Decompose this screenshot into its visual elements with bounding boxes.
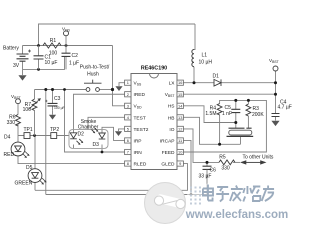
wire D3 cathode to IRN: [101, 145, 103, 153]
ground (C3): [49, 111, 56, 120]
pin 12: [177, 126, 183, 131]
svg-text:IO: IO: [169, 127, 174, 133]
testpoint TP2: [51, 133, 57, 139]
svg-text:TP2: TP2: [50, 127, 59, 133]
wire battery bottom rail: [23, 57, 65, 70]
pin 9: [177, 161, 183, 166]
svg-text:GLED: GLED: [161, 161, 175, 167]
pin 10: [177, 149, 183, 154]
ground (C4): [271, 121, 279, 126]
capacitor C6: [203, 166, 212, 170]
wire HS loop: [184, 106, 236, 123]
LED D5: [28, 169, 46, 185]
svg-text:100 µF: 100 µF: [54, 106, 65, 110]
svg-text:C3: C3: [54, 96, 61, 102]
testpoint TP1: [24, 133, 30, 139]
pin 16: [177, 80, 183, 85]
svg-text:D2: D2: [78, 132, 85, 138]
svg-text:16: 16: [178, 80, 182, 85]
watermark logo circle: [145, 183, 186, 224]
wire VBST vertical C4: [275, 71, 277, 121]
svg-text:C2: C2: [72, 53, 79, 59]
svg-text:D4: D4: [4, 135, 11, 141]
svg-text:12: 12: [178, 126, 182, 131]
svg-text:4.7 µF: 4.7 µF: [278, 105, 292, 111]
wire C5 chain: [235, 100, 237, 128]
wire gnd drop x64.5 to IRN: [65, 90, 125, 153]
svg-text:D1: D1: [213, 74, 220, 80]
wire switch to junction: [100, 89, 113, 91]
resistor R1: [43, 43, 61, 48]
svg-text:10 µH: 10 µH: [199, 60, 213, 66]
pin 7: [125, 149, 131, 154]
resistor R5: [219, 160, 235, 165]
pin 1: [125, 80, 131, 85]
svg-text:7: 7: [127, 150, 129, 155]
svg-text:3V: 3V: [13, 63, 20, 69]
svg-text:RLED: RLED: [134, 161, 147, 167]
pin 2: [125, 92, 131, 97]
svg-text:HB: HB: [168, 115, 175, 121]
wire IO loop to R5: [184, 129, 220, 163]
svg-text:200K: 200K: [252, 112, 264, 118]
svg-text:RED: RED: [4, 152, 15, 158]
svg-text:RE46C190: RE46C190: [141, 66, 167, 72]
pin 13: [177, 115, 183, 120]
pin 6: [125, 138, 131, 143]
LED D4: [11, 142, 29, 158]
svg-text:13: 13: [178, 115, 182, 120]
op-amp U1 RE46C190 IC body: [125, 74, 184, 170]
node VBST right: [273, 66, 278, 71]
svg-text:D5: D5: [26, 165, 33, 171]
wire C6 stem top: [206, 162, 208, 166]
junction dots: [37, 44, 40, 47]
wire VSS gnd stub: [119, 83, 125, 86]
svg-text:TEST2: TEST2: [134, 127, 149, 133]
pin 8: [125, 161, 131, 166]
svg-text:GREEN: GREEN: [15, 181, 33, 187]
pin 4: [125, 115, 131, 120]
ground (VSS): [115, 86, 122, 91]
wire R3 chain: [247, 100, 249, 128]
svg-text:330: 330: [7, 120, 16, 126]
svg-text:IRN: IRN: [134, 150, 143, 156]
svg-text:330: 330: [221, 166, 230, 172]
svg-text:3: 3: [127, 103, 129, 108]
svg-text:1.5M: 1.5M: [205, 111, 216, 117]
wire horn top rail: [184, 100, 267, 152]
wire bottom rail2: [46, 170, 207, 195]
glyph shao: [243, 186, 260, 202]
pin 14: [177, 103, 183, 108]
svg-text:LX: LX: [169, 81, 176, 87]
wire D3 anode loop to IRP: [102, 127, 125, 140]
svg-text:Battery: Battery: [3, 46, 19, 52]
pin 5: [125, 126, 131, 131]
svg-text:10 µF: 10 µF: [45, 60, 58, 66]
resistor R4: [217, 104, 222, 116]
wire R5 to arrow: [233, 161, 240, 163]
photodiode D3: [92, 128, 106, 139]
wire IRED to D2: [74, 94, 125, 132]
svg-text:100: 100: [23, 107, 32, 113]
diode D1: [214, 79, 221, 86]
wire vdd drop x112: [113, 46, 125, 106]
switch SW1 push-to-test: [84, 80, 102, 92]
wire IRCAP drop: [184, 140, 192, 194]
svg-text:R5: R5: [219, 155, 226, 161]
svg-text:VBST: VBST: [11, 94, 21, 100]
resistor R7 (variable): [29, 90, 41, 136]
watermark dots grid: [190, 187, 201, 205]
wire GLED loop: [35, 164, 188, 191]
svg-text:D3: D3: [93, 142, 100, 148]
svg-text:Push-to-Test/: Push-to-Test/: [80, 65, 110, 71]
glyph zi: [216, 187, 229, 202]
wire VBST row: [184, 93, 276, 95]
glyph dian: [203, 185, 213, 201]
capacitor C5: [231, 109, 240, 112]
watermark glow: [185, 180, 289, 220]
pin 3: [125, 103, 131, 108]
node VDD: [64, 31, 69, 46]
svg-text:www.elecfans.com: www.elecfans.com: [185, 209, 288, 221]
wire HB loop: [184, 117, 241, 144]
wire top rail: [39, 24, 196, 46]
wire TP row: [18, 135, 69, 137]
resistor R3: [246, 104, 251, 116]
wire battery plus rail: [23, 45, 113, 47]
svg-text:15: 15: [178, 92, 182, 97]
glyph you: [262, 186, 274, 202]
svg-text:IRCAP: IRCAP: [160, 138, 175, 144]
wire L1 top: [194, 24, 195, 50]
watermark CJK text 电子发烧友 (stroke approximation): [203, 185, 274, 202]
wire TEST2 gnd stub: [119, 129, 125, 131]
svg-text:VBST: VBST: [269, 58, 279, 64]
svg-text:TEST: TEST: [134, 115, 146, 121]
arrow to other units: [240, 160, 267, 164]
svg-text:1 nF: 1 nF: [222, 111, 232, 117]
svg-text:L1: L1: [202, 53, 208, 59]
svg-text:FEED: FEED: [162, 150, 175, 156]
svg-text:5: 5: [127, 126, 129, 131]
pin 11: [177, 138, 183, 143]
wire gnd drop x45.8 to bottom rail: [45, 90, 47, 195]
svg-text:IRED: IRED: [134, 92, 146, 98]
wire D1 to VBST node: [221, 82, 276, 84]
svg-text:33 µF: 33 µF: [199, 174, 212, 180]
svg-text:Chamber: Chamber: [78, 125, 99, 131]
ground (TEST2): [115, 131, 122, 136]
piezo horn LS1: [227, 128, 254, 136]
ground (battery): [18, 69, 26, 80]
smoke chamber box: [69, 130, 108, 149]
wire L1 bottom to LX row: [193, 67, 195, 83]
svg-text:IRP: IRP: [134, 138, 142, 144]
svg-text:6: 6: [127, 138, 129, 143]
svg-text:TP1: TP1: [24, 127, 33, 133]
wire R4 bottom: [219, 115, 221, 145]
svg-text:9: 9: [179, 161, 181, 166]
battery BT1: [17, 46, 32, 70]
svg-text:R1: R1: [50, 38, 57, 44]
svg-text:2: 2: [127, 92, 129, 97]
wire C3 stem: [52, 90, 54, 104]
capacitor C4: [272, 114, 280, 117]
resistor R6: [16, 115, 21, 127]
svg-text:11: 11: [178, 138, 182, 143]
wire left chain VBST-R6-D4: [18, 104, 125, 164]
svg-text:HS: HS: [168, 104, 175, 110]
wire LX row: [184, 82, 215, 84]
wire D5 drop: [34, 136, 36, 191]
svg-text:To other Units: To other Units: [243, 155, 274, 161]
capacitor C3: [45, 100, 58, 111]
svg-text:8: 8: [127, 161, 129, 166]
svg-text:1 µF: 1 µF: [69, 61, 79, 67]
svg-text:1: 1: [127, 80, 129, 85]
wire D2 cathode: [73, 145, 75, 149]
photo-emitter D2: [70, 133, 83, 145]
svg-text:VDD: VDD: [62, 27, 71, 33]
wire ground rail left: [35, 89, 87, 91]
wire piezo bottom stem: [240, 136, 242, 144]
wire TEST left: [88, 117, 125, 129]
capacitor C1: [34, 46, 44, 70]
inductor L1: [192, 50, 194, 67]
glyph fa: [230, 186, 243, 202]
svg-text:Hush: Hush: [87, 72, 99, 78]
pin 15: [177, 92, 183, 97]
capacitor C2: [62, 46, 71, 70]
node VBST left: [16, 99, 21, 104]
